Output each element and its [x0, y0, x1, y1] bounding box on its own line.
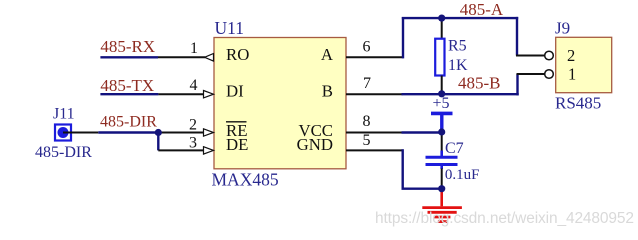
capacitor C7 bottom lead (blue): [440, 166, 443, 169]
junction GND node: [438, 185, 445, 192]
svg-text:2: 2: [567, 46, 575, 65]
wire J11 pin (black): [63, 132, 98, 134]
wire pin 7 B (black): [346, 93, 403, 95]
wire 485-B net (blue): [402, 93, 519, 95]
svg-text:https://blog.csdn.net/weixin_4: https://blog.csdn.net/weixin_42480952: [375, 210, 634, 227]
connector J11 symbol (square with circle): [55, 125, 71, 141]
wire 485-DIR net (blue): [98, 131, 158, 133]
svg-text:1: 1: [190, 40, 198, 57]
svg-text:485-DIR: 485-DIR: [35, 144, 92, 161]
wire J9 pin 2 (black): [516, 55, 545, 57]
junction R5 bottom / B net: [438, 90, 445, 97]
svg-text:8: 8: [363, 113, 371, 130]
junction 485-DIR node: [155, 129, 162, 136]
ground symbol bar 3: [434, 216, 451, 219]
ground symbol stem: [440, 191, 443, 207]
svg-text:J11: J11: [53, 105, 75, 122]
wire pin 3 DE (black): [158, 149, 204, 151]
wire pin 1 RO (black): [158, 56, 205, 58]
svg-text:DE: DE: [226, 135, 248, 154]
pin 4 input triangle: [204, 91, 214, 98]
ground symbol bar 4: [438, 220, 447, 223]
wire C7 bottom pin (black): [441, 169, 443, 187]
svg-text:A: A: [321, 45, 333, 64]
capacitor C7 plates: [426, 156, 458, 159]
resistor R5 body: [435, 39, 444, 76]
pin 3 input triangle: [204, 147, 214, 154]
J9 pin 1 circle: [545, 70, 554, 79]
svg-text:B: B: [322, 82, 333, 101]
pin 1 output triangle: [205, 54, 214, 62]
capacitor C7 top lead (blue): [440, 151, 443, 157]
J9 pin 2 circle: [545, 51, 554, 60]
svg-text:0.1uF: 0.1uF: [445, 167, 480, 183]
wire J9 pin 1 (black): [517, 73, 545, 75]
ground symbol bar 2: [428, 211, 457, 214]
svg-text:1K: 1K: [448, 57, 468, 74]
svg-text:MAX485: MAX485: [212, 170, 279, 190]
ground symbol bar 1: [422, 206, 462, 209]
wire VCC net (blue): [402, 131, 442, 133]
svg-text:485-B: 485-B: [458, 74, 501, 93]
wire A net up (blue): [402, 17, 404, 58]
wire GND net right (blue): [402, 187, 442, 189]
wire 485-DIR branch down (blue): [157, 133, 159, 151]
wire GND net down (blue): [402, 149, 404, 189]
svg-text:1: 1: [568, 65, 576, 84]
svg-text:U11: U11: [215, 18, 245, 38]
svg-text:3: 3: [189, 134, 197, 151]
wire pin 4 DI (black): [158, 93, 204, 95]
wire pin 6 A (black): [346, 56, 403, 58]
op-amp U11 body (MAX485 IC rectangle): [214, 38, 346, 169]
power +5 bar symbol: [431, 112, 453, 116]
svg-text:4: 4: [190, 77, 198, 94]
svg-text:485-DIR: 485-DIR: [100, 114, 157, 131]
svg-text:J9: J9: [555, 19, 570, 38]
junction VCC node: [438, 128, 445, 135]
junction 485-A / R5 top: [438, 15, 445, 22]
svg-text:DI: DI: [226, 82, 244, 101]
wire R5 bottom pin (black): [441, 76, 443, 94]
svg-text:485-TX: 485-TX: [100, 76, 154, 95]
wire 485-RX net (blue): [100, 56, 158, 58]
wire pin 2 RE (black): [158, 132, 204, 134]
svg-text:+5: +5: [433, 95, 450, 112]
svg-text:2: 2: [189, 117, 197, 134]
svg-text:5: 5: [363, 132, 371, 149]
svg-text:RS485: RS485: [555, 94, 601, 113]
svg-text:485-A: 485-A: [460, 0, 504, 19]
pin 2 input triangle: [204, 129, 214, 136]
svg-text:R5: R5: [448, 38, 467, 55]
svg-text:C7: C7: [445, 140, 464, 157]
wire 485-TX net (blue): [100, 93, 158, 95]
wire R5 top pin (black): [441, 18, 443, 39]
wire B net up to J9 pin 1 (blue): [516, 74, 518, 95]
wire pin 8 VCC (black): [346, 132, 403, 134]
wire 485-A top rail (blue): [402, 17, 518, 19]
connector J9 body: [556, 37, 612, 92]
svg-text:485-RX: 485-RX: [100, 37, 155, 56]
svg-text:7: 7: [363, 75, 371, 92]
svg-text:GND: GND: [297, 135, 333, 154]
wire C7 top pin (black): [441, 133, 443, 152]
wire pin 5 GND (black): [346, 149, 403, 151]
svg-text:6: 6: [363, 39, 371, 56]
wire A net down to J9 pin 2 (blue): [516, 17, 518, 56]
svg-text:RO: RO: [226, 45, 249, 64]
